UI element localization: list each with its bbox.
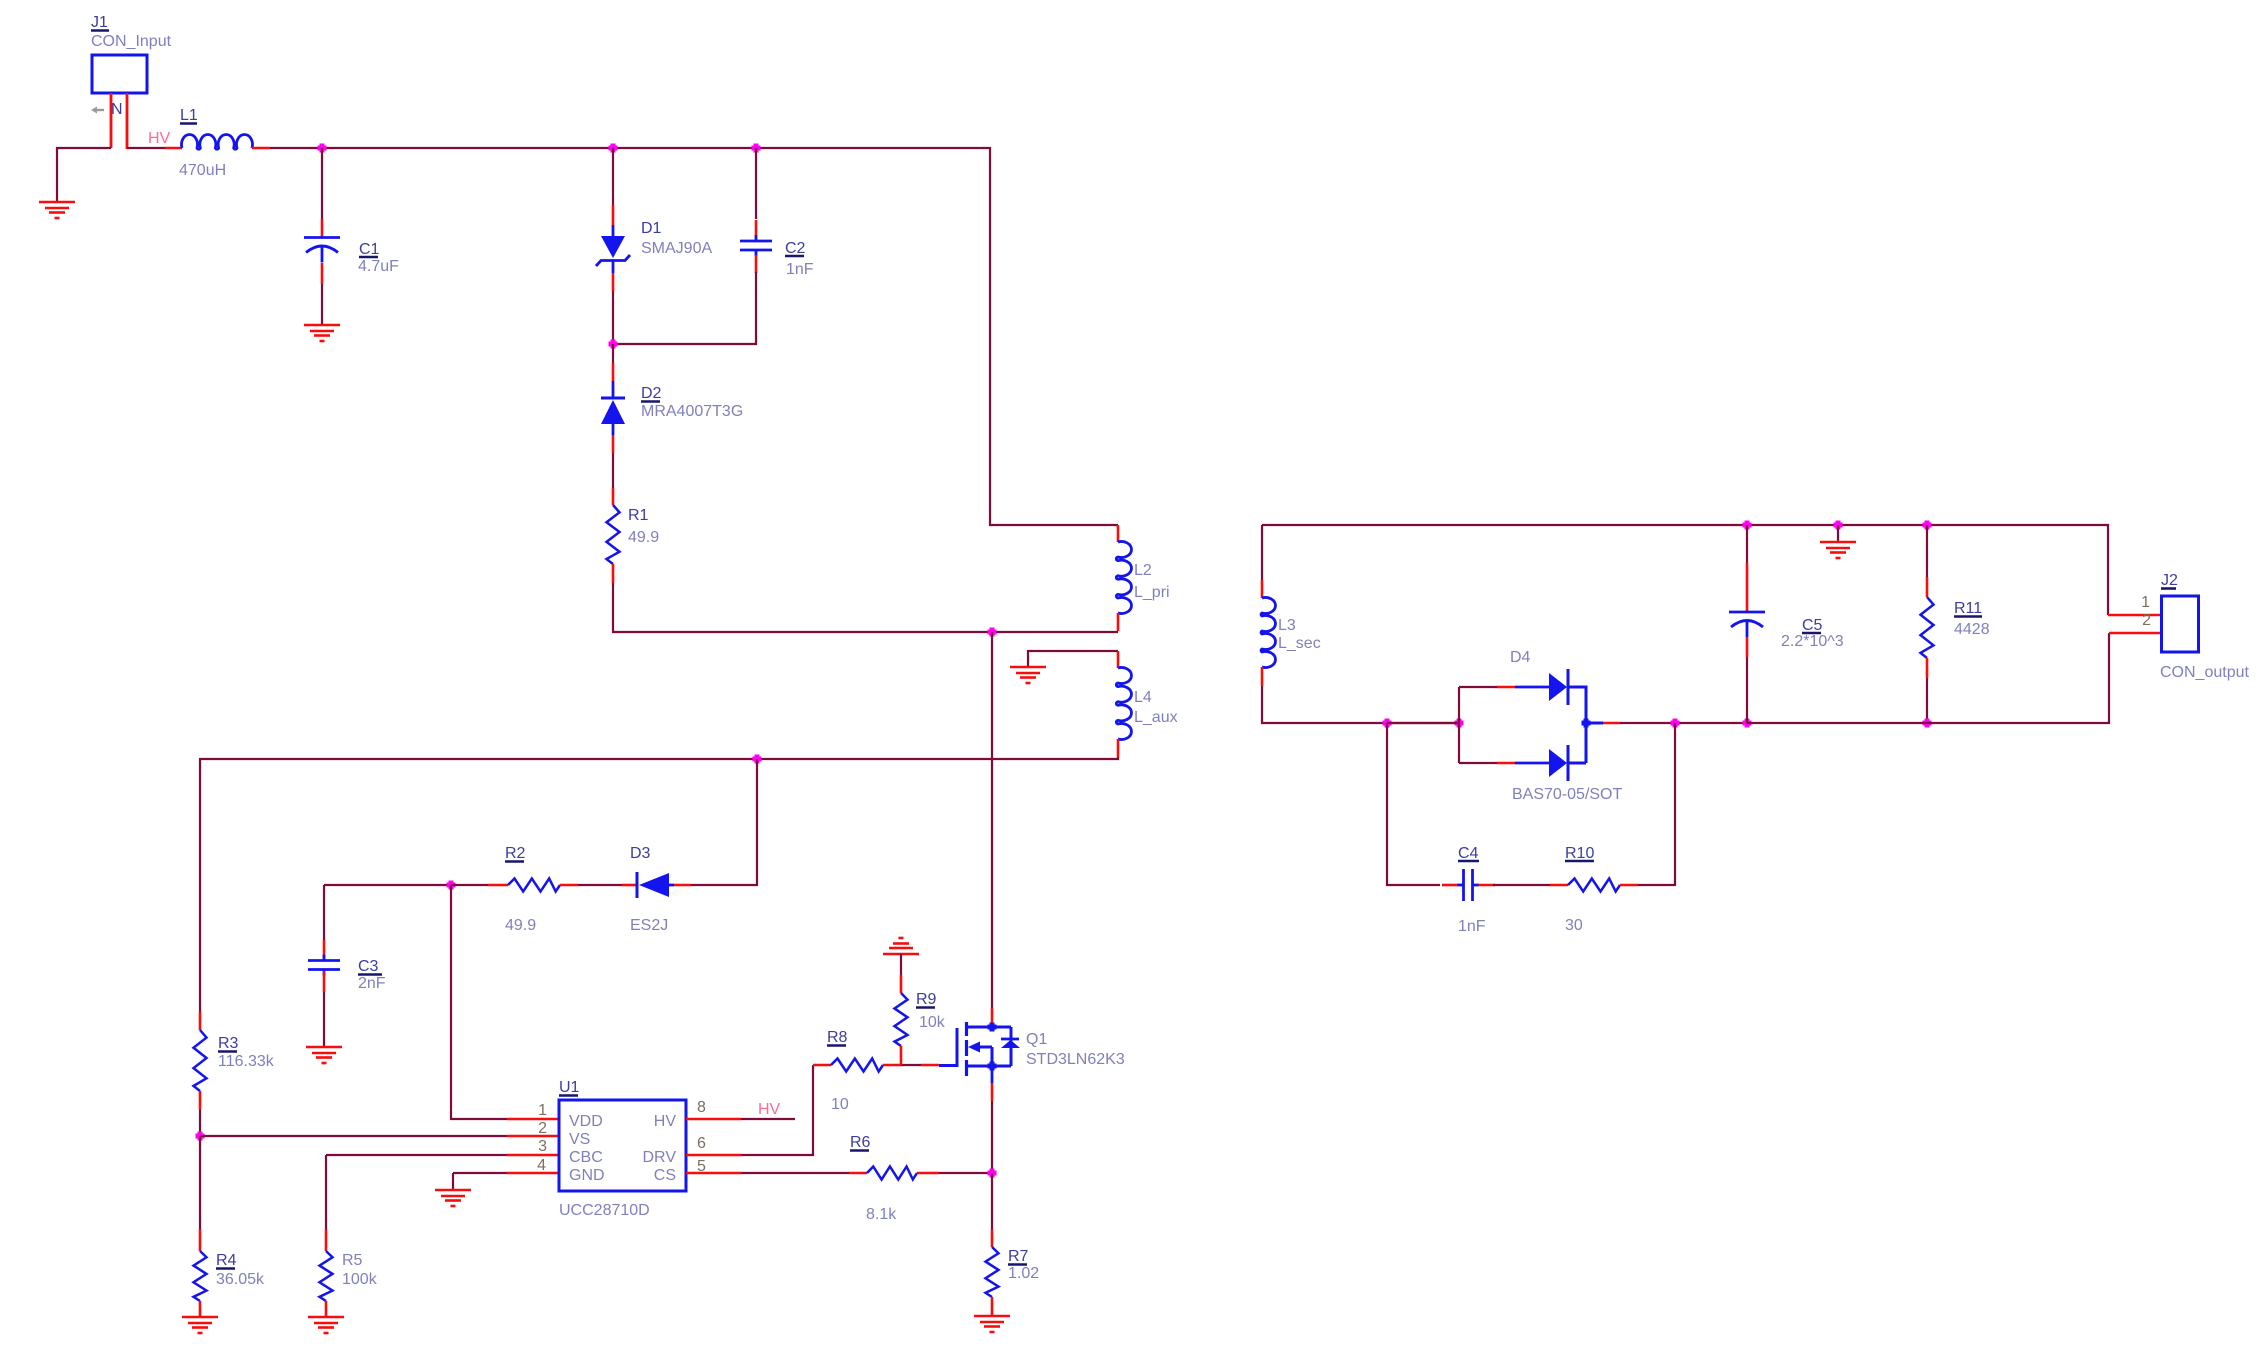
wire aux junction down	[691, 759, 757, 885]
J1 pin L wire	[110, 93, 113, 148]
svg-text:STD3LN62K3: STD3LN62K3	[1026, 1051, 1125, 1068]
wire C3 branch down	[323, 885, 325, 940]
C4 designator label	[1458, 845, 1479, 862]
R3 value 116.33k	[218, 1053, 275, 1070]
L3 bottom pin stub	[1261, 667, 1264, 686]
svg-text:C4: C4	[1458, 845, 1479, 862]
C1 bottom pin stub	[321, 263, 324, 284]
wire bottom bus to J2	[1387, 633, 2109, 723]
resistor R7	[986, 1247, 999, 1297]
R8 value 10	[831, 1096, 849, 1113]
svg-text:CON_Input: CON_Input	[91, 33, 172, 50]
svg-text:49.9: 49.9	[628, 529, 659, 546]
gate pin stub	[921, 1064, 939, 1067]
C2 top pin stub	[755, 220, 758, 237]
R1 value 49.9	[628, 529, 659, 546]
Q1 value STD3LN62K3	[1026, 1051, 1125, 1068]
R2 designator label	[505, 845, 526, 862]
svg-text:VS: VS	[569, 1131, 590, 1148]
svg-text:30: 30	[1565, 917, 1583, 934]
svg-text:L3: L3	[1278, 617, 1296, 634]
C1 value 4.7uF	[358, 258, 399, 275]
svg-text:GND: GND	[569, 1167, 605, 1184]
junction aux node	[753, 755, 762, 764]
diode D2	[601, 398, 625, 424]
D4 cathode stub	[1603, 722, 1620, 725]
svg-text:CON_output: CON_output	[2160, 664, 2249, 681]
svg-text:8.1k: 8.1k	[866, 1206, 897, 1223]
svg-text:D4: D4	[1510, 649, 1531, 666]
resistor R4	[194, 1251, 207, 1301]
svg-text:CS: CS	[654, 1167, 676, 1184]
R2 right pin stub	[560, 884, 578, 887]
svg-text:8: 8	[697, 1099, 706, 1116]
wire L3 to bottom bus	[1262, 686, 1459, 723]
D3 anode lead	[669, 884, 674, 887]
Q1 source lead	[991, 1066, 994, 1083]
svg-text:10: 10	[831, 1096, 849, 1113]
wire C1 to ground	[321, 284, 323, 324]
D1 anode lead	[612, 225, 615, 237]
inductor L1	[182, 135, 253, 150]
C2 designator label	[785, 240, 806, 257]
R1 bottom pin stub	[612, 564, 615, 583]
R1 top pin stub	[612, 488, 615, 505]
Q1 drain pin stub	[991, 1008, 994, 1023]
U1 pin4 stub	[507, 1172, 559, 1175]
D4 top anode lead	[1515, 686, 1549, 689]
D2 anode lead	[612, 424, 615, 435]
svg-text:C2: C2	[785, 240, 806, 257]
J2 pin2 stub	[2109, 632, 2162, 635]
L2 top pin stub	[1117, 525, 1120, 542]
svg-text:D1: D1	[641, 220, 662, 237]
wire VDD junction to R2	[451, 884, 488, 886]
wire HV net stub	[741, 1118, 795, 1120]
L4 bottom pin stub	[1117, 739, 1120, 757]
wire D4 anode split	[1458, 687, 1460, 763]
Q1 source dot	[988, 1062, 997, 1071]
J2 pin number 2	[2142, 612, 2151, 629]
wire bus to C2	[755, 148, 757, 219]
svg-text:3: 3	[538, 1138, 547, 1155]
svg-text:2nF: 2nF	[358, 975, 386, 992]
capacitor C1	[304, 238, 340, 263]
R4 bottom pin stub	[199, 1301, 202, 1316]
svg-text:10k: 10k	[919, 1014, 946, 1031]
J1 pin N wire	[126, 93, 129, 149]
Q1 source pin stub	[991, 1083, 994, 1101]
D3 value ES2J	[630, 917, 668, 934]
resistor R10	[1568, 879, 1620, 892]
D2 cathode lead	[612, 381, 615, 398]
R6 value 8.1k	[866, 1206, 897, 1223]
ground at C1	[304, 325, 340, 341]
R8 left pin stub	[813, 1064, 831, 1067]
Q1 drain dot	[988, 1023, 997, 1032]
U1 pin name VS	[569, 1131, 590, 1148]
svg-text:N: N	[111, 101, 123, 118]
R10 right pin stub	[1620, 884, 1638, 887]
R9 value 10k	[919, 1014, 946, 1031]
U1 pin name GND	[569, 1167, 605, 1184]
svg-text:4.7uF: 4.7uF	[358, 258, 399, 275]
svg-text:2.2*10^3: 2.2*10^3	[1781, 633, 1844, 650]
L4 value L_aux	[1134, 709, 1178, 726]
svg-text:D2: D2	[641, 385, 662, 402]
J2 designator label	[2161, 572, 2178, 589]
J2 value CON_output	[2160, 664, 2249, 681]
wire junction to R7	[991, 1173, 993, 1229]
R6 designator label	[850, 1134, 871, 1151]
svg-text:CBC: CBC	[569, 1149, 603, 1166]
R6 right pin stub	[917, 1172, 939, 1175]
svg-text:36.05k: 36.05k	[216, 1271, 265, 1288]
svg-text:ES2J: ES2J	[630, 917, 668, 934]
ground at R7	[974, 1316, 1010, 1332]
ground at R5	[308, 1317, 344, 1333]
C2 bottom pin stub	[755, 255, 758, 273]
capacitor C3	[308, 955, 340, 976]
J1 pin name N	[111, 101, 123, 118]
wire bus to C5	[1746, 525, 1748, 564]
J2 pin1 stub	[2108, 614, 2162, 617]
wire D4 top anode	[1459, 686, 1497, 688]
R5 designator label	[342, 1252, 363, 1269]
C3 bottom pin stub	[323, 971, 326, 992]
resistor R1	[607, 505, 620, 564]
svg-text:4428: 4428	[1954, 621, 1990, 638]
L2 designator label	[1134, 562, 1152, 579]
wire R1 to primary node	[613, 583, 1118, 632]
L1 value 470uH	[179, 162, 226, 179]
D4 bottom anode stub	[1497, 762, 1515, 765]
U1 pin number 3	[538, 1138, 547, 1155]
capacitor C5	[1729, 612, 1765, 637]
svg-text:U1: U1	[559, 1079, 580, 1096]
J1 value label CON_Input	[91, 33, 172, 50]
L1 left pin stub	[165, 147, 182, 150]
svg-text:J1: J1	[91, 14, 108, 31]
D4 bottom anode lead	[1515, 762, 1549, 765]
svg-text:C3: C3	[358, 958, 379, 975]
svg-text:2: 2	[538, 1120, 547, 1137]
svg-text:MRA4007T3G: MRA4007T3G	[641, 403, 743, 420]
R1 designator label	[628, 507, 649, 524]
U1 pin5 stub	[686, 1172, 741, 1175]
R11 bottom pin stub	[1926, 658, 1929, 678]
inductor L4 aux	[1116, 668, 1131, 740]
C5 value 2.2*10^3	[1781, 633, 1844, 650]
inductor L2 primary	[1116, 542, 1131, 614]
Q1 drain bar	[966, 1026, 1011, 1029]
U1 pin number 5	[697, 1158, 706, 1175]
D2 designator label	[641, 385, 662, 402]
D4 designator label	[1510, 649, 1531, 666]
D4 top anode stub	[1497, 686, 1515, 689]
diode D4 top	[1549, 669, 1568, 705]
svg-text:116.33k: 116.33k	[218, 1053, 275, 1070]
C1 designator label	[359, 241, 380, 258]
wire D1 to junction	[612, 291, 614, 344]
R11 value 4428	[1954, 621, 1990, 638]
R4 designator label	[216, 1252, 237, 1269]
C4 value 1nF	[1458, 918, 1486, 935]
diode D3	[637, 872, 669, 898]
inductor L3 secondary	[1261, 598, 1275, 668]
wire D4 bottom anode	[1459, 762, 1497, 764]
svg-text:VDD: VDD	[569, 1113, 603, 1130]
svg-text:6: 6	[697, 1135, 706, 1152]
L4 top pin stub	[1117, 651, 1120, 668]
flipped ground at R9	[883, 938, 919, 954]
L1 right pin stub	[252, 147, 270, 150]
wire DRV to R8	[741, 1065, 813, 1155]
svg-text:R8: R8	[827, 1029, 848, 1046]
wire VS to U1 pin2	[200, 1135, 507, 1137]
svg-text:SMAJ90A: SMAJ90A	[641, 240, 712, 257]
svg-text:L_aux: L_aux	[1134, 709, 1178, 726]
R9 designator label	[916, 991, 937, 1008]
junction D1 D2 C2	[609, 340, 618, 349]
U1 pin name CBC	[569, 1149, 603, 1166]
resistor R11	[1921, 597, 1934, 658]
D1 designator label	[641, 220, 662, 237]
C4 left pin stub	[1442, 884, 1458, 887]
U1 pin name DRV	[643, 1149, 677, 1166]
wire U1 pin4 to ground	[453, 1172, 507, 1174]
IC U1 UCC28710D	[559, 1100, 686, 1191]
resistor R5	[320, 1251, 333, 1301]
wire C2 to junction	[613, 272, 756, 344]
U1 pin number 2	[538, 1120, 547, 1137]
C5 bottom pin stub	[1746, 637, 1749, 657]
svg-text:470uH: 470uH	[179, 162, 226, 179]
svg-text:2: 2	[2142, 612, 2151, 629]
junction R11 bottom	[1923, 719, 1932, 728]
wire D2 to R1	[612, 453, 614, 488]
junction at C1 top	[318, 144, 327, 153]
ground at L4	[1010, 667, 1046, 683]
D4 cathode join	[1568, 687, 1603, 763]
svg-text:D3: D3	[630, 845, 651, 862]
wire junction to D2	[612, 344, 614, 363]
svg-text:UCC28710D: UCC28710D	[559, 1202, 650, 1219]
R5 top pin stub	[325, 1229, 328, 1251]
wire C4 to R10	[1493, 884, 1550, 886]
svg-text:Q1: Q1	[1026, 1031, 1047, 1048]
C3 value 2nF	[358, 975, 386, 992]
D1 cathode lead	[612, 261, 615, 273]
svg-text:1nF: 1nF	[786, 261, 814, 278]
R4 value 36.05k	[216, 1271, 265, 1288]
svg-text:R5: R5	[342, 1252, 363, 1269]
R11 designator label	[1954, 600, 1982, 617]
svg-text:1.02: 1.02	[1008, 1265, 1039, 1282]
wire R8 to gate	[901, 1064, 921, 1066]
R7 top pin stub	[991, 1229, 994, 1247]
C3 top pin stub	[323, 940, 326, 959]
C2 value 1nF	[786, 261, 814, 278]
svg-text:4: 4	[537, 1157, 546, 1174]
wire bus to R11	[1926, 525, 1928, 577]
svg-text:R2: R2	[505, 845, 526, 862]
U1 pin number 8	[697, 1099, 706, 1116]
svg-text:J2: J2	[2161, 572, 2178, 589]
wire ground corner	[452, 1173, 454, 1189]
C5 designator label	[1802, 617, 1823, 634]
wire L3 branch	[1261, 525, 1263, 580]
svg-text:L4: L4	[1134, 689, 1152, 706]
Q1 body arrow	[968, 1042, 992, 1067]
svg-text:R10: R10	[1565, 845, 1594, 862]
U1 pin3 stub	[507, 1154, 559, 1157]
resistor R6	[867, 1167, 917, 1180]
svg-text:L2: L2	[1134, 562, 1152, 579]
resistor R3	[194, 1030, 207, 1091]
U1 pin name VDD	[569, 1113, 603, 1130]
D2 bottom pin stub	[612, 435, 615, 453]
svg-text:R7: R7	[1008, 1248, 1029, 1265]
svg-text:R9: R9	[916, 991, 937, 1008]
wire R10 to junction	[1638, 723, 1675, 885]
C1 top pin stub	[321, 219, 324, 238]
junction primary switch node	[988, 628, 997, 637]
U1 pin name CS	[654, 1167, 676, 1184]
resistor R8	[831, 1059, 883, 1072]
Q1 designator label	[1026, 1031, 1047, 1048]
resistor R9	[895, 993, 908, 1046]
L3 designator label	[1278, 617, 1296, 634]
U1 pin2 stub	[507, 1135, 559, 1138]
R8 designator label	[827, 1029, 848, 1046]
R5 value 100k	[342, 1271, 378, 1288]
svg-text:HV: HV	[758, 1101, 781, 1118]
svg-text:DRV: DRV	[643, 1149, 677, 1166]
D1 bottom pin stub	[612, 273, 615, 291]
junction at C2 top	[752, 144, 761, 153]
D1 top pin stub	[612, 205, 615, 225]
wire J1 pin N to L1	[127, 147, 165, 149]
wire C4 branch	[1387, 723, 1440, 885]
D3 cathode pin stub	[622, 884, 636, 887]
junction R11 top	[1923, 521, 1932, 530]
junction CS node	[988, 1169, 997, 1178]
junction ground top	[1834, 521, 1843, 530]
svg-text:49.9: 49.9	[505, 917, 536, 934]
R7 designator label	[1008, 1248, 1029, 1265]
ground at R4	[182, 1317, 218, 1333]
D1 value SMAJ90A	[641, 240, 712, 257]
wire R2 to D3	[578, 884, 622, 886]
junction at D1 top	[609, 144, 618, 153]
svg-text:L_pri: L_pri	[1134, 584, 1170, 601]
U1 pin1 stub	[507, 1118, 559, 1121]
Q1 source bar	[966, 1065, 1011, 1068]
U1 pin number 6	[697, 1135, 706, 1152]
svg-text:R11: R11	[1954, 600, 1982, 617]
J1 pin arrow mark	[91, 107, 104, 114]
svg-text:100k: 100k	[342, 1271, 378, 1288]
D2 top pin stub	[612, 363, 615, 381]
svg-text:R3: R3	[218, 1035, 239, 1052]
svg-text:R1: R1	[628, 507, 649, 524]
wire bus to ground	[1837, 525, 1839, 541]
wire secondary top bus	[1262, 525, 2108, 615]
U1 pin number 4	[537, 1157, 546, 1174]
junction VDD node	[447, 881, 456, 890]
ground at C3	[306, 1047, 342, 1063]
R4 top pin stub	[199, 1229, 202, 1251]
L2 value L_pri	[1134, 584, 1170, 601]
C3 designator label	[358, 958, 382, 975]
R6 left pin stub	[849, 1172, 867, 1175]
diode D4 bottom	[1549, 745, 1568, 781]
R11 top pin stub	[1926, 577, 1929, 597]
wire VDD junction to U1 pin1	[451, 885, 507, 1119]
wire L4 bottom to left	[200, 757, 1118, 1012]
capacitor C4	[1458, 869, 1479, 901]
wire D4 to output bus	[1620, 722, 1747, 724]
R8 right pin stub	[883, 1064, 901, 1067]
junction D4 anode	[1455, 719, 1464, 728]
R9 top pin stub	[900, 975, 903, 993]
L2 bottom pin stub	[1117, 613, 1120, 631]
D3 anode pin stub	[674, 884, 691, 887]
svg-text:1: 1	[2141, 594, 2150, 611]
junction C5 bottom	[1743, 719, 1752, 728]
junction C5 top	[1743, 521, 1752, 530]
junction VS divider	[196, 1132, 205, 1141]
U1 pin name HV	[654, 1113, 677, 1130]
L1 designator label	[180, 107, 198, 124]
U1 pin6 stub	[686, 1154, 741, 1157]
wire R11 to bottom bus	[1926, 678, 1928, 723]
HV net label at U1	[758, 1101, 781, 1118]
connector J2	[2162, 596, 2199, 652]
svg-text:L1: L1	[180, 107, 198, 124]
R2 left pin stub	[488, 884, 508, 887]
R7 bottom pin stub	[991, 1297, 994, 1315]
R9 bottom pin stub	[900, 1046, 903, 1065]
C5 top pin stub	[1746, 563, 1749, 611]
wire Q1 source to CS junction	[991, 1101, 993, 1173]
D4 value BAS70-05/SOT	[1512, 786, 1623, 803]
wire J1 pin L to ground	[57, 148, 111, 201]
wire ground to R9	[900, 954, 902, 975]
wire C5 to bottom bus	[1746, 657, 1748, 723]
svg-text:BAS70-05/SOT: BAS70-05/SOT	[1512, 786, 1623, 803]
svg-text:1: 1	[538, 1102, 547, 1119]
wire bus to D1	[612, 148, 614, 205]
junction snubber return	[1671, 719, 1680, 728]
R3 top pin stub	[199, 1012, 202, 1030]
R7 value 1.02	[1008, 1265, 1039, 1282]
wire C3 corner to VDD junction	[324, 884, 451, 886]
TVS diode D1	[596, 236, 630, 266]
wire CS to R6	[741, 1172, 849, 1174]
ground at J1	[39, 202, 75, 218]
ground secondary	[1820, 542, 1856, 558]
ground at U1	[435, 1190, 471, 1206]
U1 designator label	[559, 1079, 580, 1096]
R10 left pin stub	[1550, 884, 1568, 887]
Q1 body diode	[1001, 1039, 1020, 1048]
wire R3 to VS junction	[199, 1110, 201, 1136]
D4 cathode dot	[1582, 719, 1591, 728]
R10 value 30	[1565, 917, 1583, 934]
wire R6 to junction	[939, 1172, 992, 1174]
